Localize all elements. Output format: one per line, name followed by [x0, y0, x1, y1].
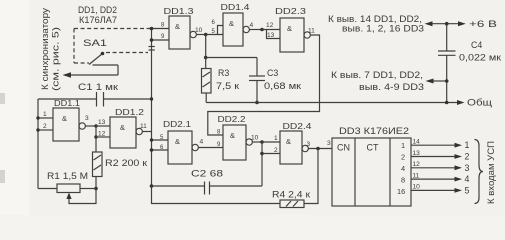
wire rail to R1: [38, 188, 57, 190]
svg-text:10: 10: [251, 135, 259, 142]
wire C3 top lead: [256, 58, 258, 77]
DD3 output wire pin11: [411, 178, 456, 180]
junction DD2.4 pin1: [260, 140, 264, 144]
svg-text:12: 12: [266, 22, 274, 29]
svg-text:12: 12: [98, 131, 106, 138]
DD3 output wire pin13: [411, 156, 456, 158]
power wire +6V: [430, 23, 460, 25]
svg-text:&: &: [120, 123, 125, 132]
SA1 dashed wire top: [74, 28, 152, 30]
wire C3 bottom lead: [256, 81, 258, 103]
brace К входам УСП: [475, 140, 484, 204]
wire from SA1 plate down: [117, 65, 119, 75]
svg-text:2: 2: [401, 153, 405, 162]
capacitor C4 top lead: [446, 24, 448, 51]
svg-text:DD2.2: DD2.2: [218, 115, 247, 124]
svg-text:16: 16: [397, 187, 405, 196]
svg-text:DD2.3: DD2.3: [275, 7, 307, 16]
svg-text:(см. рис. 5): (см. рис. 5): [51, 27, 61, 91]
wire stub pin5 DD2.1: [152, 139, 169, 141]
svg-text:R2 200 к: R2 200 к: [105, 158, 147, 168]
left rail wire down to R1: [37, 99, 39, 189]
svg-text:3: 3: [327, 140, 331, 147]
junction C3 bottom: [255, 101, 259, 105]
gate DD2.1 box: [168, 131, 192, 164]
svg-text:R4 2,4 к: R4 2,4 к: [272, 190, 310, 200]
arrowhead out5: [455, 188, 463, 193]
svg-text:2: 2: [465, 152, 470, 162]
resistor R4 body: [280, 200, 304, 208]
svg-text:C4: C4: [471, 40, 482, 50]
svg-text:&: &: [287, 24, 292, 33]
DD1.4 input tie bracket: [218, 26, 224, 35]
svg-text:5: 5: [465, 185, 470, 195]
svg-text:C1 1 мк: C1 1 мк: [78, 82, 118, 92]
arrowhead Общ: [457, 100, 465, 105]
wire stub pin2 DD2.4: [262, 153, 280, 155]
svg-text:&: &: [229, 19, 234, 28]
junction R3 top: [204, 56, 208, 60]
svg-text:11: 11: [140, 123, 147, 130]
svg-text:R1 1,5 М: R1 1,5 М: [47, 171, 88, 181]
DD3 output wire pin10: [411, 189, 456, 191]
svg-text:DD1, DD2: DD1, DD2: [78, 5, 117, 15]
svg-text:DD1.4: DD1.4: [221, 3, 251, 12]
gate DD1.2 output circle: [136, 128, 142, 134]
SA1 lever contact dot: [101, 52, 105, 56]
svg-text:К синхронизатору: К синхронизатору: [40, 7, 50, 90]
svg-text:4: 4: [465, 174, 470, 184]
R1 wiper wire: [69, 189, 96, 204]
junction pin9: [150, 38, 154, 42]
wire К выв 7: [431, 80, 447, 82]
resistor R1 body: [57, 184, 80, 193]
svg-text:DD3 К176ИЕ2: DD3 К176ИЕ2: [339, 126, 409, 136]
wire R3 top lead: [205, 58, 207, 69]
svg-text:3: 3: [465, 163, 470, 173]
svg-text:+6 В: +6 В: [469, 19, 497, 29]
SA1 lower contact plate: [93, 64, 119, 66]
gate DD2.4 output circle: [302, 145, 308, 151]
svg-text:&: &: [286, 137, 291, 146]
node riser DD2.4 inputs to C2: [261, 142, 263, 186]
arrowhead left to К выв 14: [425, 21, 433, 26]
wire stub pin2 DD1.1: [38, 129, 53, 131]
left page margin: [0, 0, 29, 215]
capacitor C2 right wire: [210, 185, 263, 187]
junction pin12: [94, 135, 97, 138]
junction C2 left: [150, 184, 154, 188]
svg-text:выв. 4-9 DD3: выв. 4-9 DD3: [359, 82, 424, 92]
gate DD2.2 box: [223, 125, 246, 160]
capacitor C1 right wire: [104, 98, 152, 100]
arrowhead out1: [455, 143, 463, 148]
junction DD2.4 pin2: [260, 152, 264, 156]
wire R1 right: [80, 188, 96, 190]
R1 wiper arrow: [66, 193, 71, 200]
SA1 dashed wire left: [73, 29, 75, 64]
tick mark upper on vertical net: [149, 46, 155, 48]
wire R2 bottom: [95, 177, 97, 189]
junction DD1.4 out: [260, 28, 264, 32]
svg-text:К176ЛА7: К176ЛА7: [79, 15, 117, 25]
junction R1 R2: [94, 187, 98, 191]
wire DD2.4 out to DD3: [308, 148, 332, 150]
svg-text:11: 11: [308, 28, 315, 35]
svg-text:Общ: Общ: [467, 98, 493, 108]
svg-text:DD1.1: DD1.1: [54, 99, 80, 108]
junction К выв 7: [445, 79, 449, 83]
svg-text:13: 13: [267, 32, 275, 39]
gate DD2.4 box: [280, 131, 302, 164]
svg-text:&: &: [230, 131, 235, 140]
junction pin6: [150, 148, 154, 152]
gate DD1.3 output circle: [190, 31, 196, 37]
DD3 output wire pin12: [411, 167, 456, 169]
wire to DD1.4 pin5: [206, 34, 223, 36]
capacitor C2 plates: [204, 182, 206, 195]
svg-text:12: 12: [413, 161, 421, 168]
wire to C3 top: [206, 57, 257, 59]
svg-text:13: 13: [98, 119, 106, 126]
svg-text:1: 1: [465, 140, 470, 150]
resistor R3 body: [202, 69, 212, 94]
svg-text:CN: CN: [337, 143, 350, 153]
page edge artifact left upper: [0, 93, 5, 104]
svg-text:9: 9: [161, 34, 165, 40]
gate DD1.3 box: [169, 16, 190, 49]
counter DD3 box: [332, 138, 411, 206]
wire DD2.1 out to DD2.2 pin9: [198, 147, 223, 149]
svg-text:R3: R3: [218, 68, 229, 78]
capacitor C1 plates: [96, 92, 98, 107]
svg-text:3: 3: [85, 115, 89, 122]
capacitor C1 left wire: [38, 98, 97, 100]
arrowhead out2: [455, 154, 463, 159]
DD3 divider CN: [354, 138, 356, 206]
svg-text:14: 14: [413, 139, 421, 146]
gate DD1.4 output circle: [243, 26, 249, 32]
wire DD2.3 out: [208, 35, 320, 135]
node riser R3: [205, 35, 207, 58]
svg-text:SA1: SA1: [83, 38, 107, 48]
wire stub pin6 DD2.1: [152, 149, 169, 151]
wire to synchronizer: [68, 74, 118, 76]
gate DD1.2 box: [110, 117, 136, 148]
svg-text:8: 8: [401, 176, 405, 185]
svg-text:10: 10: [413, 184, 421, 191]
svg-text:1: 1: [274, 135, 278, 142]
tick mark lower on vertical net: [149, 49, 155, 51]
DD3 divider CT: [389, 138, 391, 206]
node riser to pin12 and R2: [95, 126, 97, 152]
svg-text:&: &: [175, 22, 180, 31]
junction pin5: [150, 138, 153, 141]
wire stub pin1 DD1.1: [38, 117, 53, 119]
wire DD1.1 out: [85, 125, 96, 127]
svg-text:8: 8: [161, 23, 165, 29]
svg-text:0,68 мк: 0,68 мк: [264, 81, 301, 91]
junction DD1.3 out: [204, 33, 208, 37]
arrowhead right +6V: [458, 21, 466, 26]
DD3 output wire pin14: [411, 144, 456, 146]
svg-text:К выв. 14 DD1, DD2,: К выв. 14 DD1, DD2,: [328, 14, 422, 24]
arrowhead to synchronizer: [63, 72, 72, 78]
page edge artifact left lower: [0, 170, 5, 183]
junction pin2 rail: [36, 128, 39, 131]
junction C1 right: [150, 97, 153, 100]
svg-text:&: &: [62, 114, 67, 123]
svg-text:CT: CT: [367, 143, 379, 153]
wire DD1.3 out: [196, 34, 205, 36]
gate DD2.2 output circle: [246, 139, 252, 145]
R3 power marks: [203, 72, 211, 77]
wire DD1.2 out: [142, 131, 151, 133]
gate DD1.1 output circle: [79, 123, 85, 129]
gate DD1.1 box: [53, 108, 79, 141]
svg-text:4: 4: [401, 164, 405, 173]
wire stub pin1 DD2.4: [262, 141, 280, 143]
svg-text:3: 3: [307, 141, 311, 148]
svg-text:4: 4: [200, 139, 204, 146]
svg-text:6: 6: [212, 20, 216, 26]
SA1 dashed stub to fixed contact: [74, 62, 89, 64]
svg-text:1: 1: [43, 111, 47, 118]
arrowhead К выв 7: [426, 79, 434, 84]
svg-text:C3: C3: [267, 68, 278, 78]
svg-text:DD2.4: DD2.4: [283, 122, 313, 131]
SA1 lever: [89, 54, 103, 65]
wire stub pin13 DD1.2: [96, 125, 110, 127]
capacitor C2 left wire: [152, 185, 205, 187]
svg-text:11: 11: [413, 172, 420, 179]
wire R4 left: [152, 186, 281, 204]
wire stub pin8 DD1.3: [152, 28, 170, 30]
R4 power marks: [286, 201, 291, 207]
svg-text:2: 2: [274, 147, 278, 154]
wire stub pin12 DD1.2: [96, 136, 110, 138]
wire DD1.4 out: [249, 29, 262, 31]
common rail Общ: [206, 102, 459, 104]
arrowhead out4: [455, 177, 463, 182]
svg-text:13: 13: [413, 150, 421, 157]
svg-text:0,022 мк: 0,022 мк: [459, 53, 501, 63]
svg-text:C2 68: C2 68: [191, 169, 223, 179]
resistor R2 body: [93, 152, 103, 177]
svg-text:7,5 к: 7,5 к: [216, 81, 239, 91]
svg-text:1: 1: [401, 141, 405, 150]
capacitor C4 bottom lead: [446, 55, 448, 102]
junction DD1.1 out: [94, 124, 97, 127]
gate DD2.3 output circle: [304, 32, 310, 38]
junction pin1 rail: [36, 116, 39, 119]
gate DD1.4 box: [223, 13, 243, 46]
R2 power marks: [94, 155, 102, 160]
capacitor C4 plates: [438, 50, 456, 52]
wire to DD2.3 pin12: [262, 29, 280, 31]
junction C4 top: [445, 22, 449, 26]
wire R3 bottom lead: [205, 93, 207, 103]
svg-text:выв. 1, 2, 16 DD3: выв. 1, 2, 16 DD3: [342, 24, 424, 34]
DD2.3 input tie bracket: [267, 30, 281, 39]
wire R4 right: [304, 149, 318, 204]
svg-text:2: 2: [43, 123, 47, 130]
arrowhead out3: [455, 165, 463, 170]
capacitor C3 plates: [249, 75, 265, 77]
gate DD2.3 box: [280, 18, 304, 52]
wire DD2.2 out: [252, 141, 262, 143]
svg-text:DD1.2: DD1.2: [115, 108, 145, 117]
gate DD2.1 output circle: [192, 144, 198, 150]
svg-text:DD1.3: DD1.3: [164, 7, 195, 16]
wire stub pin9 DD1.3: [152, 39, 170, 41]
svg-text:К входам УСП: К входам УСП: [486, 141, 496, 204]
junction pin8: [150, 27, 154, 31]
svg-text:10: 10: [195, 27, 203, 34]
svg-text:DD2.1: DD2.1: [163, 120, 192, 129]
junction C4 bottom on rail: [445, 101, 449, 105]
SA1 dashed wire right of lever: [106, 52, 148, 54]
svg-text:4: 4: [250, 22, 254, 29]
svg-text:&: &: [175, 137, 180, 146]
svg-text:К выв. 7 DD1, DD2,: К выв. 7 DD1, DD2,: [331, 70, 423, 80]
junction DD2.4 out R4: [316, 147, 320, 151]
node line: main vertical net x=151.5: [151, 29, 153, 187]
